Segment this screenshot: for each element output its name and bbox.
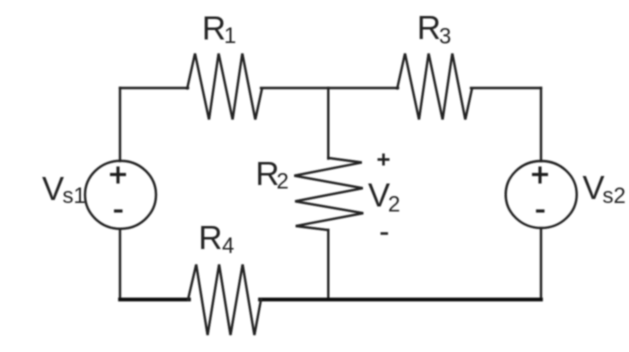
- wire left bottom vertical: [119, 230, 121, 300]
- svg-text:R: R: [199, 219, 223, 256]
- voltage source Vs2: [506, 161, 577, 228]
- svg-text:3: 3: [439, 24, 451, 49]
- wire left top vertical: [119, 88, 121, 161]
- resistor R3: [397, 54, 472, 120]
- wire right bottom vertical: [540, 230, 542, 300]
- svg-text:V: V: [583, 169, 605, 206]
- voltage source Vs1: [85, 161, 156, 229]
- svg-text:V: V: [368, 177, 390, 214]
- Vs2 minus polarity mark: [536, 209, 545, 212]
- resistor R1: [187, 54, 262, 120]
- wire top right horizontal: [471, 87, 541, 89]
- resistor R4: [188, 265, 261, 336]
- svg-text:2: 2: [388, 192, 400, 217]
- wire top middle horizontal: [261, 87, 398, 89]
- svg-text:s2: s2: [603, 183, 626, 208]
- V2 plus polarity mark: [378, 158, 390, 161]
- svg-text:s1: s1: [63, 183, 86, 208]
- V2 minus polarity mark: [381, 232, 389, 235]
- node A: R2 top junction wire: [327, 88, 329, 159]
- svg-text:2: 2: [277, 169, 289, 194]
- svg-text:4: 4: [222, 233, 234, 258]
- Vs2 plus polarity mark: [532, 173, 548, 176]
- wire top left horizontal: [120, 87, 188, 89]
- svg-text:V: V: [42, 170, 64, 207]
- resistor R2: [294, 158, 363, 230]
- svg-text:R: R: [417, 9, 441, 46]
- wire R2 bottom vertical: [327, 230, 329, 300]
- svg-text:R: R: [202, 10, 226, 47]
- wire bottom left horizontal (thick): [120, 298, 189, 302]
- wire bottom right horizontal (thick): [260, 298, 541, 302]
- wire right top vertical: [540, 88, 542, 161]
- Vs1 plus polarity mark: [110, 173, 126, 176]
- Vs1 minus polarity mark: [114, 209, 123, 212]
- svg-text:1: 1: [224, 23, 236, 48]
